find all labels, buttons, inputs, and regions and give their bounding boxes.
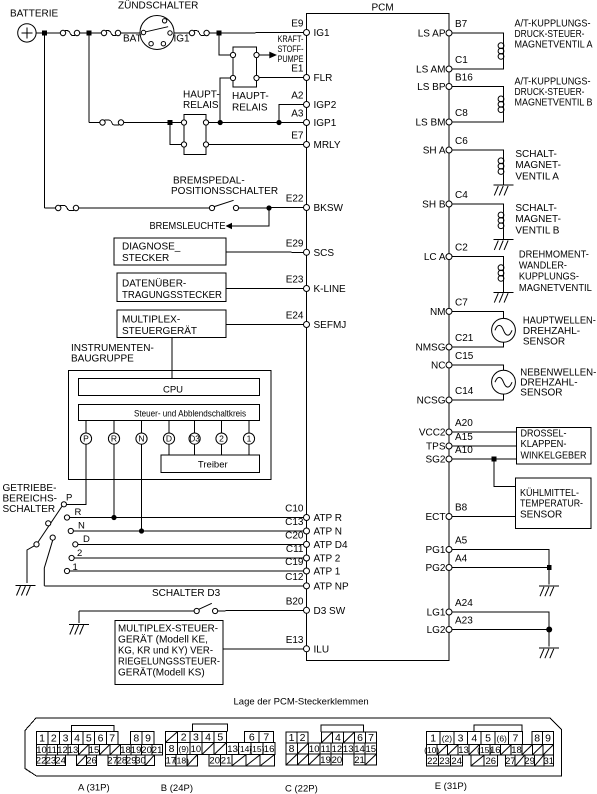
svg-text:10: 10	[36, 745, 47, 756]
wire TPS	[452, 445, 517, 447]
svg-text:STEUERGERÄT: STEUERGERÄT	[122, 325, 197, 337]
pin C13 ATP N	[285, 517, 342, 538]
svg-text:PG2: PG2	[425, 563, 445, 574]
svg-text:13: 13	[458, 745, 469, 756]
svg-text:NMSG: NMSG	[416, 343, 446, 354]
svg-text:A2: A2	[291, 91, 304, 102]
svg-text:DREHZAHL-: DREHZAHL-	[523, 326, 580, 337]
svg-text:VCC2: VCC2	[419, 428, 446, 439]
wire PG to ground	[548, 568, 550, 585]
svg-text:10: 10	[191, 744, 202, 755]
fuse F2	[101, 30, 120, 35]
svg-text:C1: C1	[455, 55, 468, 66]
box Drosselklappenwinkelgeber	[517, 428, 592, 465]
svg-text:A/T-KUPPLUNGS-: A/T-KUPPLUNGS-	[515, 19, 591, 30]
svg-text:RELAIS: RELAIS	[232, 103, 268, 114]
solenoid Schaltmagnetventil B with ground	[452, 204, 514, 250]
label KRAFTSTOFFPUMPE	[278, 34, 304, 64]
contact R	[64, 507, 81, 520]
svg-text:DIAGNOSE_: DIAGNOSE_	[122, 242, 181, 253]
svg-text:E13: E13	[286, 635, 304, 646]
svg-text:KRAFT-: KRAFT-	[278, 34, 304, 44]
contact D	[73, 534, 90, 547]
svg-text:NCSG: NCSG	[417, 396, 446, 407]
svg-text:8: 8	[534, 732, 540, 744]
svg-text:19: 19	[320, 755, 331, 766]
contact N	[68, 521, 85, 534]
wire battery down-feed left	[44, 33, 46, 208]
switch brake pedal position	[209, 200, 238, 210]
label SCHALTER D3	[152, 588, 221, 599]
svg-text:C21: C21	[455, 333, 474, 344]
svg-text:C19: C19	[285, 557, 304, 568]
svg-text:ILU: ILU	[314, 644, 330, 655]
svg-text:A/T-KUPPLUNGS-: A/T-KUPPLUNGS-	[515, 77, 591, 88]
sensor Hauptwellen-Drehzahl-Sensor	[452, 311, 515, 347]
svg-text:6: 6	[249, 731, 255, 743]
svg-text:4: 4	[74, 732, 80, 744]
svg-text:E23: E23	[286, 275, 304, 286]
wire IGP1 row	[89, 122, 304, 124]
wire IG1 to PCM	[174, 32, 304, 35]
pin E9 IG1	[291, 19, 330, 40]
pin A23 LG2	[427, 616, 474, 637]
connector A pin grid	[36, 726, 163, 767]
svg-text:21: 21	[152, 745, 163, 756]
pin C7 NM	[430, 297, 468, 318]
svg-text:SCS: SCS	[314, 248, 335, 259]
svg-text:C8: C8	[455, 108, 468, 119]
svg-text:P: P	[83, 434, 89, 444]
pin B8 ECT	[426, 503, 468, 524]
fuse F3	[189, 30, 209, 35]
svg-text:PCM: PCM	[372, 3, 394, 14]
label Schaltmagnetventil A	[515, 149, 561, 182]
svg-text:POSITIONSSCHALTER: POSITIONSSCHALTER	[171, 186, 278, 197]
svg-text:1: 1	[430, 732, 436, 744]
junction PG node	[547, 565, 552, 570]
svg-text:16: 16	[490, 745, 501, 756]
svg-text:19: 19	[131, 745, 142, 756]
svg-text:E9: E9	[291, 19, 304, 30]
svg-text:E22: E22	[286, 194, 304, 205]
svg-text:B20: B20	[286, 596, 304, 607]
connector E pin grid	[424, 725, 554, 767]
svg-text:MULTIPLEX-: MULTIPLEX-	[122, 315, 180, 326]
wire VCC2	[452, 431, 517, 433]
svg-text:TPS: TPS	[426, 442, 446, 453]
ground gear switch	[16, 585, 36, 595]
svg-text:GETRIEBE-: GETRIEBE-	[3, 483, 57, 494]
wire ignition to relay2	[219, 36, 230, 56]
svg-text:KUPPLUNGS-: KUPPLUNGS-	[519, 272, 579, 283]
svg-text:D: D	[166, 434, 172, 444]
wire K-LINE	[226, 288, 304, 290]
svg-text:PG1: PG1	[425, 545, 445, 556]
svg-text:6: 6	[357, 732, 363, 744]
svg-text:7: 7	[263, 731, 269, 743]
svg-text:A3: A3	[291, 109, 304, 120]
svg-text:BATTERIE: BATTERIE	[10, 9, 58, 20]
junction SG2 node	[492, 457, 497, 462]
svg-text:8: 8	[289, 743, 295, 755]
fuse F1	[60, 30, 79, 35]
svg-text:LC A: LC A	[424, 252, 446, 263]
wire LG2	[452, 629, 549, 631]
contact P	[61, 493, 72, 507]
junction R node	[111, 515, 116, 520]
svg-text:21: 21	[354, 755, 365, 766]
svg-text:Lage der PCM-Steckerklemmen: Lage der PCM-Steckerklemmen	[234, 697, 369, 708]
indicator lamps P R N D D3 2 1	[80, 421, 254, 445]
battery BATTERIE	[10, 9, 58, 43]
label E (31P)	[435, 781, 467, 792]
ground PG	[539, 586, 559, 596]
svg-text:MAGNET-: MAGNET-	[515, 214, 561, 225]
solenoid Drehmomentwandler-Kupplungs-Magnetventil with ground	[452, 257, 514, 303]
switch pole NP	[44, 535, 55, 586]
svg-text:2: 2	[51, 732, 57, 744]
svg-text:3: 3	[193, 731, 199, 743]
pin A15 TPS	[426, 432, 473, 453]
pin A24 LG1	[427, 598, 474, 619]
wire ATP 2 row	[74, 557, 303, 559]
svg-text:26: 26	[486, 756, 497, 767]
svg-text:DRUCK-STEUER-: DRUCK-STEUER-	[515, 87, 585, 98]
svg-text:7: 7	[368, 732, 374, 744]
label Lage der PCM-Steckerklemmen	[234, 697, 369, 708]
svg-text:FLR: FLR	[314, 73, 333, 84]
svg-text:MRLY: MRLY	[314, 140, 341, 151]
svg-text:LG2: LG2	[427, 625, 446, 636]
svg-text:IG1: IG1	[174, 34, 191, 45]
pin B7 LS AP	[418, 19, 468, 40]
svg-text:IG1: IG1	[314, 28, 331, 39]
box MULTIPLEX-STEUERGERAET Modell	[115, 621, 223, 685]
label GETRIEBEBEREICHSSCHALTER	[3, 483, 57, 515]
svg-text:11: 11	[321, 744, 331, 755]
pin E23 K-LINE	[286, 275, 346, 296]
svg-text:MAGNET-: MAGNET-	[515, 160, 561, 171]
box DATENUEBERTRAGUNGSSTECKER	[117, 273, 226, 302]
svg-text:SENSOR: SENSOR	[520, 387, 562, 398]
label C (22P)	[285, 784, 318, 794]
pin C10 ATP R	[285, 504, 342, 525]
wire SCS	[226, 251, 304, 253]
junction LG node	[546, 627, 552, 633]
svg-text:11: 11	[47, 745, 57, 756]
svg-text:SENSOR: SENSOR	[520, 510, 562, 521]
svg-text:23: 23	[439, 756, 450, 767]
svg-text:ATP NP: ATP NP	[314, 582, 350, 593]
wire relay2 to fuel pump	[259, 52, 277, 59]
svg-text:RELAIS: RELAIS	[183, 100, 219, 111]
label Drehmomentwandler	[519, 249, 592, 293]
svg-text:DRUCK-STEUER-: DRUCK-STEUER-	[515, 29, 585, 40]
svg-text:MULTIPLEX-STEUER-: MULTIPLEX-STEUER-	[118, 624, 218, 635]
pin C20 ATP D4	[285, 530, 348, 551]
svg-text:BREMSPEDAL-: BREMSPEDAL-	[173, 176, 245, 187]
box instrument cluster	[69, 371, 272, 480]
relay HAUPT-RELAIS 1	[181, 90, 219, 155]
svg-text:20: 20	[209, 756, 220, 767]
svg-text:8: 8	[169, 743, 175, 755]
pin C21 NMSG	[416, 333, 474, 354]
svg-text:N: N	[78, 521, 85, 532]
svg-text:21: 21	[221, 756, 232, 767]
svg-text:DROSSEL-: DROSSEL-	[521, 429, 567, 440]
svg-text:A10: A10	[455, 445, 473, 456]
svg-text:HAUPT-: HAUPT-	[183, 90, 220, 101]
wire SG2 to coolant sensor	[494, 459, 516, 487]
svg-text:D: D	[83, 534, 90, 545]
label Nebenwellensensor	[520, 368, 596, 399]
wire relay2 coil to IGP1 node	[220, 78, 230, 120]
svg-text:7: 7	[512, 732, 518, 744]
wire multiplex to CPU	[171, 338, 173, 379]
svg-text:18: 18	[511, 745, 522, 756]
label B (24P)	[161, 783, 193, 794]
wire D3 row	[79, 609, 304, 612]
svg-text:SH B: SH B	[422, 200, 446, 211]
pin C15 NC	[431, 351, 474, 372]
svg-text:30: 30	[135, 756, 146, 767]
svg-text:9: 9	[545, 732, 551, 744]
svg-text:B (24P): B (24P)	[161, 783, 193, 794]
svg-text:5: 5	[86, 732, 92, 744]
box Treiber	[161, 455, 260, 473]
pin E7 MRLY	[291, 131, 341, 152]
pin A5 PG1	[425, 536, 467, 557]
svg-text:9: 9	[145, 732, 151, 744]
svg-text:20: 20	[332, 755, 343, 766]
svg-text:ATP N: ATP N	[314, 527, 343, 538]
contact 1	[64, 562, 77, 574]
box CPU	[78, 378, 259, 395]
svg-text:24: 24	[55, 756, 66, 767]
svg-text:SENSOR: SENSOR	[523, 337, 565, 348]
svg-text:2: 2	[219, 434, 224, 444]
svg-text:C13: C13	[285, 517, 304, 528]
junction brake light node	[266, 205, 271, 210]
svg-text:A20: A20	[455, 418, 473, 429]
label magnetventil A	[515, 19, 593, 51]
wire to brake light	[226, 208, 270, 229]
junction relay2 coil node	[218, 120, 223, 125]
svg-text:E1: E1	[291, 64, 304, 75]
svg-text:(9): (9)	[179, 744, 190, 754]
svg-text:A24: A24	[455, 598, 473, 609]
junction N node	[139, 528, 144, 533]
junction relay feed	[168, 120, 173, 125]
svg-text:A4: A4	[455, 554, 468, 565]
pin C1 LS AM	[416, 55, 468, 76]
svg-text:HAUPTWELLEN-: HAUPTWELLEN-	[523, 316, 596, 327]
svg-text:2: 2	[300, 732, 306, 744]
svg-text:18: 18	[120, 745, 131, 756]
connector housing outline	[25, 718, 562, 776]
svg-text:4: 4	[205, 731, 211, 743]
svg-text:2: 2	[77, 548, 82, 559]
svg-text:(15): (15)	[249, 744, 264, 754]
svg-text:STOFF-: STOFF-	[278, 44, 304, 54]
svg-text:DATENÜBER-: DATENÜBER-	[122, 278, 186, 290]
svg-text:PUMPE: PUMPE	[278, 54, 304, 64]
pin A4 PG2	[425, 554, 467, 575]
svg-text:ATP 1: ATP 1	[314, 567, 341, 578]
svg-text:KG, KR und KY) VER-: KG, KR und KY) VER-	[118, 646, 213, 657]
svg-text:SCHALTER D3: SCHALTER D3	[152, 588, 221, 599]
svg-text:C14: C14	[455, 386, 474, 397]
svg-text:4: 4	[335, 732, 341, 744]
svg-text:13: 13	[68, 745, 79, 756]
svg-text:R: R	[111, 434, 117, 444]
svg-text:CPU: CPU	[163, 384, 183, 395]
svg-text:C4: C4	[455, 190, 468, 201]
svg-text:TEMPERATUR-: TEMPERATUR-	[520, 499, 583, 510]
svg-text:C20: C20	[285, 530, 304, 541]
junction IG1 node	[217, 31, 222, 36]
pin C11 ATP 2	[286, 544, 341, 565]
svg-text:LS AM: LS AM	[416, 65, 445, 76]
label BREMSPEDAL-POSITIONSSCHALTER	[171, 176, 278, 198]
junction battery feed	[42, 31, 47, 36]
svg-text:2: 2	[181, 731, 187, 743]
ignition switch ZUNDSCHALTER	[118, 0, 198, 50]
wire ATP N row	[73, 530, 303, 532]
pin E29 SCS	[286, 238, 335, 259]
svg-text:26: 26	[86, 756, 97, 767]
svg-text:ATP R: ATP R	[314, 513, 343, 524]
svg-text:A (31P): A (31P)	[78, 783, 110, 794]
connector C pin grid	[286, 725, 377, 766]
svg-text:C15: C15	[455, 351, 474, 362]
svg-text:SG2: SG2	[425, 455, 445, 466]
pin A3 IGP1	[291, 109, 336, 130]
sensor Nebenwellen-Drehzahl-Sensor	[452, 365, 515, 400]
svg-text:E29: E29	[286, 238, 304, 249]
svg-text:B8: B8	[455, 503, 468, 514]
svg-text:13: 13	[343, 744, 354, 755]
svg-text:31: 31	[544, 756, 555, 767]
box MULTIPLEX-STEUERGERAET	[117, 310, 226, 338]
switch SCHALTER D3	[194, 603, 218, 613]
svg-text:MAGNETVENTIL: MAGNETVENTIL	[519, 283, 592, 294]
svg-text:Steuer- und Abblendschaltkreis: Steuer- und Abblendschaltkreis	[134, 409, 246, 420]
svg-text:ATP D4: ATP D4	[314, 540, 349, 551]
wire P lamp to P contact	[67, 444, 87, 504]
svg-text:4: 4	[471, 732, 477, 744]
svg-text:6: 6	[98, 732, 104, 744]
svg-text:DREHMOMENT-: DREHMOMENT-	[519, 249, 589, 260]
svg-text:A23: A23	[455, 616, 473, 627]
pin C4 SH B	[422, 190, 468, 211]
svg-text:SEFMJ: SEFMJ	[314, 320, 347, 331]
svg-text:LS BP: LS BP	[417, 82, 446, 93]
wire LG to ground	[548, 630, 550, 647]
svg-text:B16: B16	[455, 73, 473, 84]
svg-text:BAUGRUPPE: BAUGRUPPE	[71, 354, 134, 365]
svg-text:B7: B7	[455, 19, 468, 30]
label BREMSLEUCHTE	[150, 221, 226, 232]
wire ILU	[223, 648, 304, 650]
solenoid A/T-Kupplungs-Druck-Steuer-Magnetventil B	[452, 87, 504, 123]
label Schaltmagnetventil B	[515, 203, 561, 237]
svg-text:STECKER: STECKER	[122, 253, 169, 264]
svg-text:VENTIL A: VENTIL A	[515, 171, 559, 182]
label magnetventil B	[515, 77, 593, 109]
svg-text:MAGNETVENTIL A: MAGNETVENTIL A	[515, 40, 593, 51]
wire N lamp drop	[141, 444, 143, 531]
pin E13 ILU	[286, 635, 329, 656]
wire main fuse down-feed	[88, 33, 90, 123]
svg-text:HAUPT-: HAUPT-	[232, 91, 269, 102]
svg-text:P: P	[66, 493, 72, 504]
svg-text:C10: C10	[285, 504, 304, 515]
wire PG2	[452, 567, 549, 569]
wire R lamp drop	[113, 444, 115, 517]
pin C19 ATP 1	[285, 557, 341, 578]
wire PG1	[452, 550, 549, 568]
svg-text:27: 27	[505, 756, 516, 767]
pin C2 LC A	[424, 243, 468, 264]
ground D3 switch	[69, 624, 89, 634]
svg-text:WANDLER-: WANDLER-	[519, 261, 567, 272]
pin C6 SH A	[423, 136, 469, 157]
svg-text:SCHALTER: SCHALTER	[3, 504, 56, 515]
svg-text:ECT: ECT	[426, 512, 446, 523]
wires lamps to Treiber	[169, 444, 249, 455]
svg-text:20: 20	[141, 745, 152, 756]
svg-text:E (31P): E (31P)	[435, 781, 467, 792]
pin C12 ATP NP	[285, 572, 349, 593]
pin B16 LS BP	[417, 73, 473, 94]
svg-text:MAGNETVENTIL B: MAGNETVENTIL B	[515, 98, 593, 109]
svg-text:15: 15	[366, 744, 377, 755]
svg-text:3: 3	[63, 732, 69, 744]
svg-text:15: 15	[89, 745, 100, 756]
wire ATP NP row	[44, 585, 303, 587]
wire MRLY row	[209, 144, 304, 146]
svg-text:C7: C7	[455, 297, 468, 308]
svg-text:BEREICHS-: BEREICHS-	[3, 494, 57, 505]
svg-text:WINKELGEBER: WINKELGEBER	[521, 451, 587, 462]
svg-text:ZÜNDSCHALTER: ZÜNDSCHALTER	[118, 0, 198, 12]
svg-text:C11: C11	[286, 544, 304, 555]
wire ATP D4 row	[78, 543, 304, 545]
svg-text:12: 12	[57, 745, 68, 756]
svg-text:SH A: SH A	[423, 146, 446, 157]
svg-text:C2: C2	[455, 243, 468, 254]
switch blade gear selector	[34, 506, 62, 547]
wire FLR row	[259, 77, 303, 79]
contact 2	[69, 548, 82, 561]
pin A2 IGP2	[291, 91, 336, 112]
svg-text:5: 5	[485, 732, 491, 744]
solenoid Schaltmagnetventil A with ground	[452, 150, 514, 195]
svg-text:24: 24	[451, 756, 462, 767]
svg-text:R: R	[75, 507, 82, 518]
svg-text:D3 SW: D3 SW	[314, 606, 346, 617]
relay HAUPT-RELAIS 2	[230, 47, 268, 114]
svg-text:INSTRUMENTEN-: INSTRUMENTEN-	[71, 343, 154, 354]
svg-text:GERÄT (Modell KE,: GERÄT (Modell KE,	[118, 634, 208, 646]
svg-text:ATP 2: ATP 2	[314, 554, 341, 565]
svg-text:3: 3	[458, 732, 464, 744]
svg-text:TRAGUNGSSTECKER: TRAGUNGSSTECKER	[122, 290, 222, 301]
svg-text:LS AP: LS AP	[418, 29, 446, 40]
svg-text:E7: E7	[291, 131, 304, 142]
